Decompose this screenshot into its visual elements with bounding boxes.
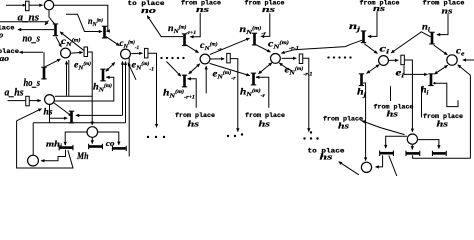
svg-text:Mh: Mh xyxy=(76,152,88,162)
svg-text:hs: hs xyxy=(259,118,271,128)
svg-text:eN(m)-1: eN(m)-1 xyxy=(132,61,155,73)
svg-text:from place: from place xyxy=(374,104,414,111)
svg-text:ei: ei xyxy=(396,69,405,80)
svg-text:to place: to place xyxy=(308,148,345,155)
svg-text:cN(m)-r: cN(m)-r xyxy=(200,41,222,53)
svg-text:from place: from place xyxy=(360,0,400,6)
svg-text:hs: hs xyxy=(44,107,54,117)
svg-text:nN(m): nN(m) xyxy=(88,17,103,28)
svg-text:hs: hs xyxy=(188,118,200,128)
svg-text:a_ns: a_ns xyxy=(18,12,40,23)
svg-text:cN(m)-r-1: cN(m)-r-1 xyxy=(268,40,299,52)
svg-text:mhi: mhi xyxy=(46,138,62,150)
svg-text:nj: nj xyxy=(349,22,360,33)
svg-text:from place: from place xyxy=(423,113,463,120)
svg-text:ci: ci xyxy=(380,45,390,56)
svg-text:hN(m)-r+1: hN(m)-r+1 xyxy=(163,89,195,101)
svg-text:to place: to place xyxy=(0,48,19,55)
svg-text:ce: ce xyxy=(456,47,465,58)
svg-text:from place: from place xyxy=(423,0,465,6)
svg-text:ni: ni xyxy=(422,23,430,34)
svg-text:hi: hi xyxy=(421,86,429,97)
svg-text:cN(m)-1: cN(m)-1 xyxy=(120,39,140,51)
svg-text:no_s: no_s xyxy=(23,33,41,44)
svg-text:eN(m): eN(m) xyxy=(74,61,91,72)
svg-text:hN(m): hN(m) xyxy=(93,83,112,94)
svg-text:from place: from place xyxy=(245,112,285,119)
svg-text:from place: from place xyxy=(323,116,363,123)
svg-text:to place: to place xyxy=(128,0,165,7)
svg-text:ns: ns xyxy=(442,5,454,15)
svg-text:hj: hj xyxy=(357,88,366,99)
svg-text:ho_s: ho_s xyxy=(24,78,41,89)
svg-text:hN(m)-r: hN(m)-r xyxy=(240,87,265,99)
svg-text:co: co xyxy=(106,138,115,148)
svg-text:eN(m)-r: eN(m)-r xyxy=(213,70,236,82)
svg-text:from place: from place xyxy=(181,0,221,6)
svg-text:from place: from place xyxy=(175,112,215,119)
svg-text:a_hs: a_hs xyxy=(5,87,24,98)
svg-text:from place: from place xyxy=(245,0,285,6)
svg-text:nN(m)-r: nN(m)-r xyxy=(240,25,267,37)
svg-text:to place: to place xyxy=(0,25,15,32)
